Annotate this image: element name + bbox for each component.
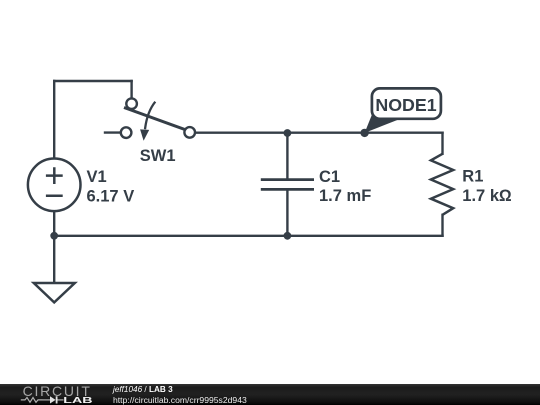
wire switch top stub [130,81,132,98]
svg-text:V1: V1 [87,168,107,186]
junction dot (NODE1) [360,129,368,137]
capacitor C1 [261,133,314,236]
footer url line [113,395,247,405]
voltage source V1 [28,159,81,212]
svg-text:1.7 mF: 1.7 mF [319,187,371,205]
svg-text:SW1: SW1 [140,147,176,165]
junction dot (C1 bottom) [284,232,292,240]
svg-text:6.17 V: 6.17 V [87,188,135,206]
wire resistor bottom stub [441,215,443,236]
svg-text:C1: C1 [319,168,340,186]
svg-text:R1: R1 [462,167,483,185]
wire right vertical to resistor [441,133,443,154]
resistor R1 [431,154,453,215]
junction dot (V1 / bottom rail) [50,232,58,240]
svg-text:NODE1: NODE1 [375,95,436,115]
svg-text:LAB: LAB [63,396,92,405]
wire ground lead [53,236,55,283]
svg-text:1.7 kΩ: 1.7 kΩ [462,187,512,205]
CircuitLab logo [0,384,100,405]
wire top rail right (switch to resistor corner) [195,131,442,133]
logo resistor squiggle [21,398,43,403]
node NODE1 callout [365,88,441,132]
junction dot (C1 top) [284,129,292,137]
logo diode [43,399,51,401]
footer credit line [113,385,173,394]
switch SW1 [121,98,195,140]
wire V1 bottom [53,211,55,236]
wire top-left vertical (V1 top to top rail) [53,81,55,158]
wire top rail left (to switch top) [54,80,131,82]
footer bar [0,384,540,405]
wire bottom rail [54,235,442,237]
wire switch left throw stub [105,131,121,133]
ground [34,283,75,302]
